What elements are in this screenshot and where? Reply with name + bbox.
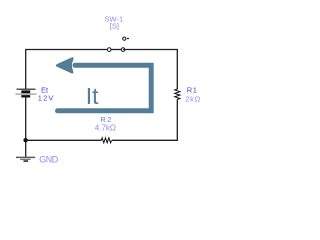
wire battery+ to SW-1 bbox=[26, 50, 110, 90]
switch SW-1 bbox=[107, 37, 129, 51]
battery Et bbox=[16, 89, 37, 97]
svg-text:It: It bbox=[86, 83, 99, 109]
wire R2 left to junction bbox=[26, 139, 102, 141]
current arrow It (teal loop) bbox=[57, 59, 151, 111]
wire R1 bottom to R2 right bbox=[112, 99, 177, 140]
svg-text:GND: GND bbox=[39, 154, 59, 164]
svg-text:[S]: [S] bbox=[110, 22, 119, 31]
wire SW-1 to R1 top bbox=[123, 50, 177, 90]
resistor R1 bbox=[175, 89, 180, 99]
svg-text:2kΩ: 2kΩ bbox=[185, 94, 201, 103]
wire junction to ground bbox=[25, 140, 27, 157]
wire battery- to junction bbox=[25, 98, 27, 141]
svg-text:12V: 12V bbox=[38, 93, 55, 102]
ground bbox=[16, 157, 35, 161]
resistor R2 bbox=[101, 138, 111, 143]
svg-text:4.7kΩ: 4.7kΩ bbox=[95, 123, 116, 132]
svg-text:R1: R1 bbox=[187, 85, 198, 94]
junction node bbox=[23, 138, 27, 142]
